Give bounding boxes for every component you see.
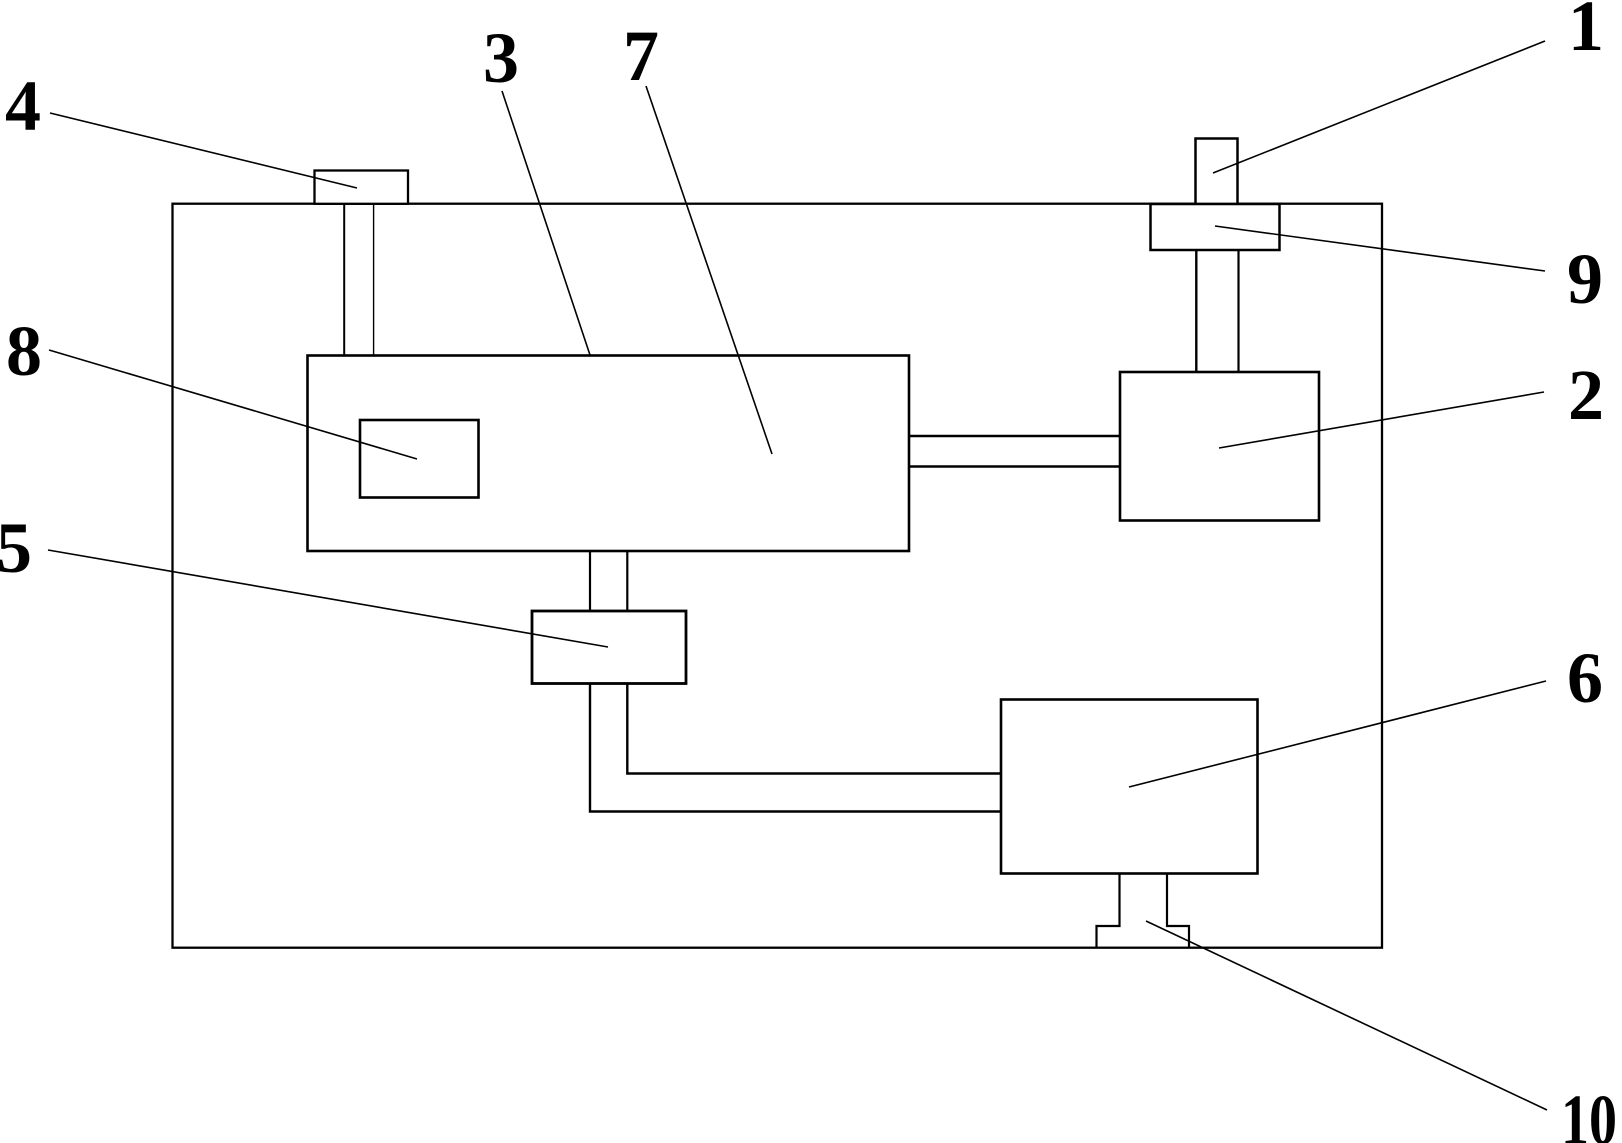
pump unit 2	[1120, 372, 1319, 521]
inlet fitting 4	[315, 171, 409, 204]
drain foot 10	[1097, 874, 1190, 948]
tank 6	[1001, 700, 1258, 874]
svg-text:5: 5	[0, 508, 32, 588]
outer housing frame	[173, 204, 1383, 948]
pipe from flange 9 down to pump 2	[1195, 250, 1197, 372]
svg-text:9: 9	[1567, 239, 1603, 319]
svg-text:8: 8	[6, 311, 42, 391]
leader line 8	[49, 350, 417, 459]
svg-text:6: 6	[1567, 638, 1603, 718]
svg-text:10: 10	[1561, 1080, 1617, 1143]
pipe from unit 3 to pump 2	[909, 435, 1120, 437]
svg-text:3: 3	[483, 18, 519, 98]
leader line 6	[1129, 681, 1546, 787]
pipe from fitting 4 down to unit 3	[343, 204, 345, 356]
valve 5	[532, 611, 686, 684]
svg-text:4: 4	[5, 66, 41, 146]
leader line 7	[646, 86, 772, 454]
main unit 3	[308, 356, 910, 552]
module 8 inside unit 3	[360, 420, 479, 498]
port 1	[1196, 139, 1238, 205]
leader line 5	[48, 550, 608, 647]
leader line 4	[50, 113, 357, 188]
flange 9	[1151, 204, 1280, 250]
svg-text:1: 1	[1568, 0, 1604, 66]
leader line 1	[1213, 41, 1545, 173]
leader line 3	[502, 91, 590, 355]
svg-text:7: 7	[623, 16, 659, 96]
leader line 10	[1146, 921, 1547, 1110]
leader line 2	[1219, 392, 1544, 448]
leader line 9	[1215, 226, 1545, 271]
pipe from unit 3 down to valve 5	[589, 551, 591, 611]
svg-text:2: 2	[1568, 355, 1604, 435]
L-shaped pipe from valve 5 to tank 6	[590, 684, 1001, 812]
